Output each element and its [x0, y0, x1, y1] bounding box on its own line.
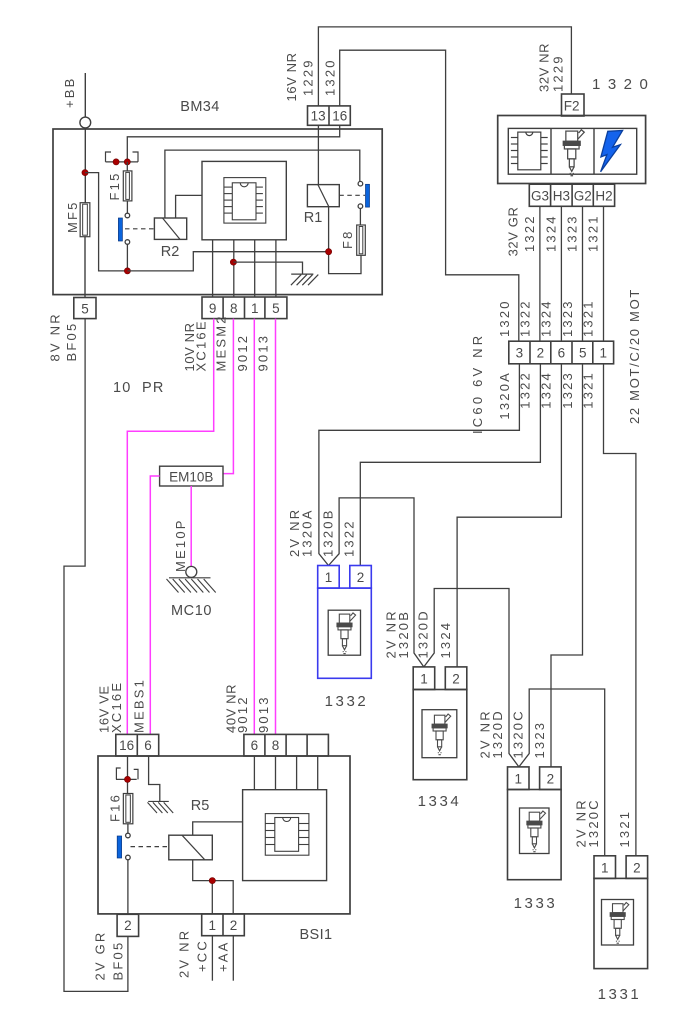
wire 1320C 1333 to 1331	[519, 689, 605, 856]
svg-text:6: 6	[144, 738, 152, 753]
svg-text:1: 1	[514, 772, 522, 787]
injector 1333 icon	[527, 811, 546, 852]
wire +BB vertical into BM34	[84, 73, 86, 117]
injector 1331 body	[594, 878, 648, 968]
svg-text:10 PR: 10 PR	[113, 380, 165, 396]
IC chip BM34	[224, 178, 266, 224]
contact circle R1 bottom	[358, 204, 363, 209]
svg-text:MC10: MC10	[171, 603, 212, 619]
ecu 1320 box	[498, 116, 646, 184]
connector BM34 pins 13|16	[308, 106, 351, 125]
ground MC10	[167, 578, 216, 593]
wire R2 coil to chip box	[176, 195, 202, 218]
wire chip to pin 5b	[275, 240, 277, 297]
contact circle R1 top	[358, 181, 363, 186]
wire MF5 to pin 5	[84, 237, 86, 298]
svg-text:+CC: +CC	[195, 939, 210, 972]
wire 1321 IC60 to 1331 pin2	[604, 364, 636, 856]
icon lightning bolt	[601, 131, 623, 172]
wire MEBS1 magenta from EM10B	[150, 476, 159, 734]
wire pin16 internal to F15 branch	[127, 125, 339, 162]
svg-text:1324: 1324	[544, 214, 559, 252]
icon IC chip in ecu 1320	[511, 132, 548, 170]
relay R1	[307, 185, 339, 207]
connector BSI1 pins 16|6	[116, 734, 159, 756]
svg-text:1333: 1333	[514, 895, 558, 912]
svg-text:R1: R1	[304, 210, 323, 226]
bsi BSI1 box	[98, 756, 350, 914]
svg-text:1229: 1229	[301, 58, 316, 96]
svg-text:1331: 1331	[598, 986, 642, 1003]
svg-text:8: 8	[272, 738, 280, 753]
connector BM34 pin 5	[74, 298, 96, 319]
injector 1334 icon	[432, 714, 451, 755]
junction dot R1 bottom	[326, 249, 332, 255]
svg-text:1334: 1334	[418, 793, 462, 810]
wire +AA	[232, 936, 234, 981]
svg-text:+BB: +BB	[62, 76, 77, 108]
svg-text:16: 16	[119, 738, 134, 753]
svg-text:2: 2	[230, 918, 238, 933]
wire 1320D 1334 to 1333	[424, 589, 519, 767]
svg-text:1320C: 1320C	[511, 709, 526, 758]
svg-text:R5: R5	[191, 798, 210, 814]
svg-text:2: 2	[537, 346, 545, 361]
svg-text:1323: 1323	[565, 214, 580, 252]
svg-text:MEBS1: MEBS1	[132, 678, 147, 733]
svg-text:1320C: 1320C	[586, 798, 601, 847]
wire 1321 H2 to IC60	[603, 206, 605, 341]
icon injector in ecu 1320	[563, 130, 584, 176]
injector 1332 icon box	[328, 610, 360, 655]
wire F16 to contact	[127, 824, 129, 833]
svg-text:16V NR: 16V NR	[284, 52, 299, 101]
wire ME10P magenta to ground	[190, 486, 192, 566]
wire to internal ground	[233, 262, 302, 274]
injector 1332 pin 2 box	[350, 566, 372, 589]
connector BSI1 pins 1|2 bottom	[202, 914, 245, 936]
svg-text:1322: 1322	[517, 299, 532, 337]
svg-text:R2: R2	[161, 244, 180, 260]
ground MEBS1	[148, 801, 174, 813]
contact circle R2 top	[125, 213, 130, 218]
wire contact to bottom net	[126, 244, 128, 271]
fuse F8	[357, 225, 366, 255]
svg-text:16: 16	[332, 108, 347, 123]
chip box BSI1	[243, 790, 327, 881]
svg-text:1323: 1323	[532, 721, 547, 759]
wire 1229 from BM34 pin 13 to F2	[318, 27, 571, 106]
svg-text:1320A: 1320A	[300, 508, 315, 557]
junction dot on +BB wire	[82, 170, 88, 176]
ecu 1320 inner box	[508, 128, 636, 174]
contact bar R1 blue	[366, 184, 370, 207]
injector 1333 icon box	[520, 808, 550, 854]
wire 1324 H3 to IC60	[560, 206, 562, 341]
wire branch from +BB dot to switch bottom net	[85, 173, 127, 271]
connector BM34 pins 9 8 1 5	[202, 297, 287, 319]
svg-text:1320B: 1320B	[320, 508, 335, 557]
svg-text:1: 1	[325, 570, 333, 585]
wire bottom net to R1 junction	[127, 252, 328, 271]
svg-text:1322: 1322	[341, 519, 356, 557]
wire 1324 IC60 to 1334 pin2	[457, 364, 561, 667]
svg-text:5: 5	[579, 346, 587, 361]
svg-text:+AA: +AA	[216, 940, 231, 972]
svg-text:1320D: 1320D	[415, 609, 430, 658]
svg-text:G2: G2	[574, 189, 592, 204]
svg-text:IC60 6V NR: IC60 6V NR	[470, 333, 485, 434]
svg-text:1324: 1324	[539, 299, 554, 337]
svg-text:EM10B: EM10B	[169, 469, 213, 484]
wire +CC	[211, 936, 213, 981]
svg-text:H2: H2	[595, 189, 612, 204]
injector 1331 icon box	[602, 900, 634, 946]
contact circle R5 top	[126, 833, 131, 838]
svg-text:F8: F8	[340, 229, 355, 249]
svg-text:1320B: 1320B	[396, 610, 411, 659]
svg-text:1320D: 1320D	[490, 709, 505, 758]
svg-text:8V NR: 8V NR	[48, 312, 63, 361]
ground MC10 ring	[186, 566, 197, 577]
fuse F15	[123, 171, 132, 201]
connector IC60	[509, 341, 614, 364]
svg-text:1320A: 1320A	[497, 371, 512, 420]
svg-text:9013: 9013	[256, 695, 271, 733]
terminal ring +BB	[80, 117, 91, 128]
svg-text:1320: 1320	[592, 76, 655, 93]
svg-text:2: 2	[452, 672, 460, 687]
relay R5	[169, 835, 213, 860]
IC chip BSI1	[265, 814, 309, 856]
injector 1334 icon box	[422, 710, 457, 758]
contact circle R2 bottom	[125, 240, 130, 245]
svg-text:5: 5	[81, 301, 89, 316]
svg-text:2V NR: 2V NR	[177, 929, 192, 978]
wire R5 bottom to pins 1 2	[193, 860, 234, 914]
svg-text:F2: F2	[564, 99, 580, 114]
wire 1323 G2 to IC60	[582, 206, 584, 341]
wire conn cell3 to chip	[296, 756, 298, 790]
svg-text:9: 9	[209, 301, 217, 316]
svg-text:1324: 1324	[438, 621, 453, 659]
wire R5 coil to chip box BSI1	[193, 822, 243, 835]
wire BF05 from pin5 to BSI1 pin2	[64, 319, 128, 992]
wire chip to pin 1	[254, 240, 256, 297]
svg-text:1: 1	[420, 672, 428, 687]
wire conn cell4 to chip	[317, 756, 319, 790]
svg-text:1321: 1321	[617, 810, 632, 848]
connector BSI1 pin 2 bottom	[117, 914, 139, 936]
svg-text:BF05: BF05	[111, 941, 126, 981]
wire MEBS1 internal ground	[149, 756, 160, 801]
svg-text:3: 3	[516, 346, 524, 361]
svg-text:8: 8	[230, 301, 238, 316]
svg-text:MF5: MF5	[65, 200, 80, 233]
svg-text:H3: H3	[553, 189, 570, 204]
wire 1320B 1332 to 1334	[329, 498, 424, 667]
svg-text:1: 1	[599, 346, 607, 361]
svg-text:1: 1	[251, 301, 259, 316]
wire MESM2 magenta	[223, 319, 233, 474]
svg-text:1229: 1229	[551, 54, 566, 92]
svg-text:5: 5	[272, 301, 280, 316]
wire 9013 magenta	[275, 319, 277, 735]
svg-text:1: 1	[209, 918, 217, 933]
wire 1320 from BM34 pin 16 to IC60 pin 3	[340, 50, 519, 341]
contact bar R5 blue	[117, 836, 121, 858]
injector 1334 pin 1 box	[413, 667, 435, 690]
svg-text:1332: 1332	[325, 693, 369, 710]
wire 1322 IC60 to 1332 pin2	[360, 364, 540, 566]
injector 1332 icon	[337, 613, 356, 654]
injector 1333 body	[508, 790, 562, 880]
wire pin16 to F16	[127, 756, 129, 794]
svg-text:2: 2	[547, 772, 555, 787]
svg-text:9012: 9012	[235, 334, 250, 372]
injector 1331 icon	[610, 903, 629, 944]
svg-text:XC16E: XC16E	[193, 319, 208, 371]
svg-text:BSI1: BSI1	[299, 927, 332, 943]
junction dot R5 output	[209, 878, 215, 884]
injector 1334 body	[413, 690, 467, 780]
injector 1332 body	[318, 588, 372, 678]
svg-text:2: 2	[124, 918, 132, 933]
terminal bar BSI1	[116, 778, 137, 780]
dashed link R5	[131, 846, 169, 848]
svg-text:F15: F15	[107, 171, 122, 200]
dashed link to relay R2	[125, 228, 154, 230]
svg-text:9012: 9012	[235, 695, 250, 733]
contact circle R5 bottom	[126, 855, 131, 860]
svg-text:G3: G3	[531, 189, 549, 204]
svg-text:2V GR: 2V GR	[93, 930, 108, 980]
svg-text:BF05: BF05	[64, 322, 79, 362]
wire pin13 to relay R1	[317, 125, 319, 184]
svg-text:1: 1	[601, 861, 609, 876]
svg-text:22 MOT/C/20 MOT: 22 MOT/C/20 MOT	[627, 288, 642, 424]
junction dot terminal left	[113, 159, 119, 165]
terminal bar at F15	[106, 161, 139, 163]
relay R2	[154, 218, 186, 239]
wire into fuse F15	[126, 162, 128, 171]
wire 1320A IC60 to 1332	[319, 364, 520, 566]
injector 1331 pin 2 box	[626, 856, 648, 879]
wire chip to pin 9	[212, 240, 214, 297]
svg-text:ME10P: ME10P	[173, 518, 188, 572]
wire +BB into box	[84, 128, 86, 203]
injector 1331 pin 1 box	[594, 856, 616, 879]
svg-text:1322: 1322	[522, 214, 537, 252]
injector 1334 pin 2 box	[445, 667, 467, 690]
svg-text:6: 6	[251, 738, 259, 753]
junction dot bottom net	[124, 268, 130, 274]
injector 1333 pin 1 box	[508, 767, 530, 790]
wire R2 coil to switch R1 line	[165, 150, 360, 218]
junction dot BSI1 terminal	[124, 776, 130, 782]
wire contact to F8	[359, 209, 361, 226]
wire conn cell1 to chip	[253, 756, 255, 790]
injector 1332 pin 1 box	[318, 566, 340, 589]
wire 1323 IC60 to 1333 pin2	[551, 364, 583, 767]
svg-text:1321: 1321	[586, 214, 601, 252]
svg-text:32V NR: 32V NR	[537, 43, 552, 92]
wire XC16E magenta	[127, 319, 213, 735]
svg-text:32V GR: 32V GR	[506, 207, 521, 257]
wire chip to pin 8	[233, 240, 235, 297]
svg-text:MESM2: MESM2	[214, 314, 229, 371]
splice EM10B	[160, 466, 223, 486]
wire conn cell2 to chip	[275, 756, 277, 790]
chip box BM34	[202, 161, 286, 239]
dashed link R1	[339, 194, 365, 196]
svg-text:1323: 1323	[560, 299, 575, 337]
svg-text:1323: 1323	[560, 371, 575, 409]
junction dot ground tap	[230, 259, 236, 265]
connector F2	[562, 94, 585, 116]
wire contact to pin 2 left	[127, 860, 129, 915]
svg-text:9013: 9013	[256, 334, 271, 372]
junction dot terminal right	[124, 159, 130, 165]
svg-text:2: 2	[357, 570, 365, 585]
svg-text:F16: F16	[108, 793, 123, 822]
wire 9012 magenta	[253, 319, 255, 735]
svg-text:6: 6	[558, 346, 566, 361]
ecu BM34 box	[53, 129, 382, 295]
svg-text:1320: 1320	[497, 299, 512, 337]
svg-text:XC16E: XC16E	[109, 681, 124, 733]
injector 1333 pin 2 box	[540, 767, 562, 790]
fuse MF5	[80, 203, 90, 237]
wire junction to pin 1	[211, 881, 213, 914]
wire 1322 G3 to IC60	[539, 206, 541, 341]
wire R1 bottom to F8 bottom	[329, 207, 361, 274]
fuse F16	[123, 794, 133, 824]
connector BSI1 pins 6|8	[244, 734, 329, 756]
connector G3 H3 G2 H2	[529, 184, 614, 206]
svg-text:13: 13	[311, 108, 326, 123]
contact bar R2 blue	[118, 218, 122, 241]
svg-text:2: 2	[633, 861, 641, 876]
svg-text:1320: 1320	[323, 58, 338, 96]
ground internal BM34	[291, 274, 318, 285]
svg-text:1321: 1321	[581, 299, 596, 337]
svg-text:BM34: BM34	[180, 99, 219, 115]
wire F15 to contact	[126, 201, 128, 213]
